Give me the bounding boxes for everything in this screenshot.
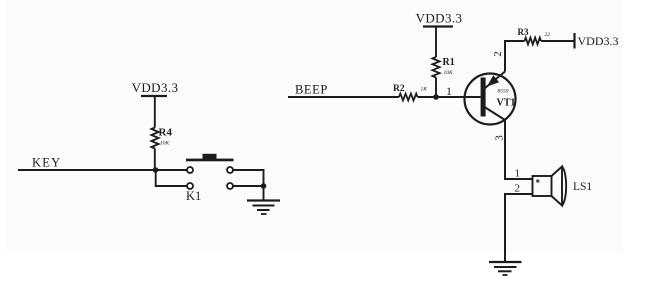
resistor R1	[432, 57, 454, 78]
wire R2 to transistor base	[418, 96, 481, 98]
horn mouth rim	[562, 167, 566, 206]
wire right bracket	[233, 170, 264, 186]
net BEEP	[288, 83, 399, 98]
wire R1 to base node	[435, 78, 437, 98]
emitter arrow (points into base, PNP)	[487, 75, 499, 86]
svg-text:K1: K1	[186, 189, 201, 203]
svg-text:3: 3	[494, 135, 506, 141]
svg-text:BEEP: BEEP	[295, 83, 328, 97]
power VDD3.3 (left)	[132, 80, 179, 96]
pin circle bottom-right	[227, 183, 233, 189]
svg-text:10K: 10K	[444, 70, 454, 76]
ground (right)	[489, 262, 522, 275]
speaker LS1	[515, 167, 593, 206]
wire R3 to power port	[541, 40, 575, 42]
svg-text:8550: 8550	[498, 89, 509, 95]
resistor R4	[151, 127, 172, 149]
base bar	[481, 78, 486, 117]
svg-text:R2: R2	[393, 84, 405, 94]
transistor VT1	[465, 72, 516, 125]
svg-text:VDD3.3: VDD3.3	[132, 80, 179, 95]
resistor R2	[393, 84, 427, 100]
svg-text:VDD3.3: VDD3.3	[416, 11, 463, 26]
button actuator nub	[203, 154, 217, 159]
pin circle top-left	[187, 167, 193, 173]
svg-text:R3: R3	[518, 27, 529, 37]
svg-text:10K: 10K	[160, 141, 170, 147]
wire node to pin	[156, 169, 188, 171]
svg-text:R1: R1	[443, 57, 455, 68]
wire speaker pin 2 to ground	[505, 194, 533, 262]
svg-text:VDD3.3: VDD3.3	[578, 34, 619, 48]
power VDD3.3 (top)	[416, 11, 463, 27]
wire emitter up to R3	[505, 41, 525, 72]
collector diagonal (bottom)	[485, 107, 506, 120]
svg-text:1K: 1K	[421, 87, 428, 93]
svg-text:2: 2	[515, 183, 521, 195]
polarity marker	[536, 179, 540, 183]
wire VDD to R1	[435, 27, 437, 58]
pushbutton K1	[156, 154, 264, 203]
svg-text:KEY: KEY	[32, 156, 61, 170]
wire VDD to R4	[154, 96, 156, 128]
power VDD3.3 (right)	[575, 33, 619, 49]
resistor R3	[518, 27, 551, 44]
body circle	[465, 74, 516, 125]
node junction (K1 to ground)	[261, 183, 267, 189]
node junction (KEY / R4 / K1)	[153, 167, 159, 173]
wire left bracket	[156, 170, 187, 186]
horn cone	[552, 167, 563, 206]
svg-text:22: 22	[545, 32, 551, 38]
emitter diagonal (top)	[485, 72, 506, 89]
svg-text:1: 1	[515, 168, 521, 180]
wire collector down to speaker pin 1	[505, 120, 533, 179]
svg-text:R4: R4	[159, 127, 173, 139]
pin circle top-right	[227, 167, 233, 173]
svg-text:2: 2	[492, 51, 504, 57]
net KEY	[18, 156, 156, 171]
wire R4 to KEY node	[154, 149, 156, 171]
driver body rectangle	[533, 176, 552, 196]
svg-text:VT1: VT1	[497, 98, 516, 109]
node junction (R1 / R2 / base)	[433, 94, 439, 100]
pin circle bottom-left	[187, 183, 193, 189]
ground (left)	[247, 201, 280, 215]
svg-text:1: 1	[446, 84, 452, 98]
wire K1 to ground	[263, 186, 265, 201]
svg-text:LS1: LS1	[573, 181, 592, 193]
button cap bar	[186, 159, 234, 162]
